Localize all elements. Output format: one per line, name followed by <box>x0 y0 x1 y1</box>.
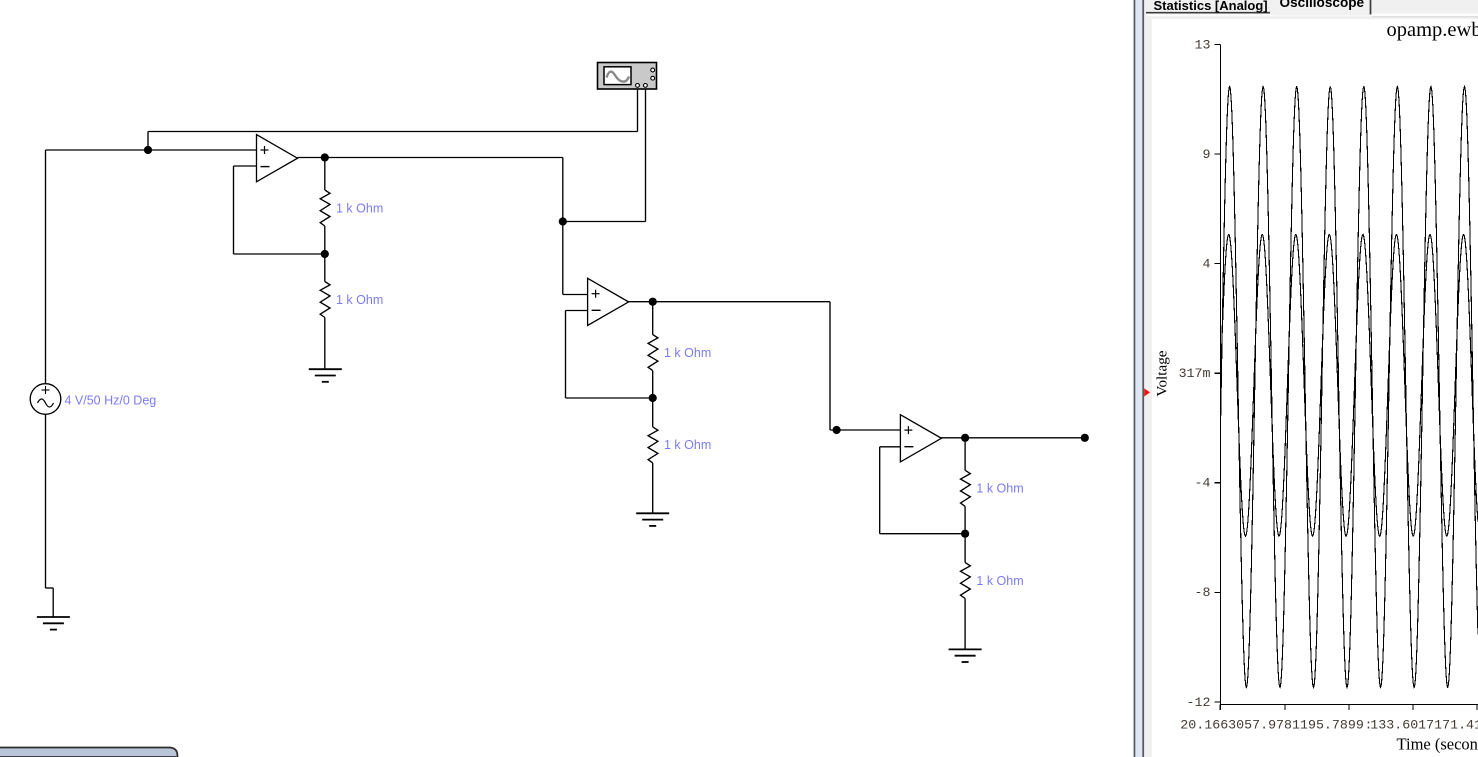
y axis <box>1214 44 1478 710</box>
node U3 input <box>833 426 841 434</box>
ground at source <box>37 616 70 618</box>
node U3 divider mid <box>961 530 969 538</box>
resistor R2 1 k Ohm <box>320 282 330 318</box>
tab Statistics [Analog] <box>1146 0 1270 12</box>
wire top horizontal to scope channel A <box>148 131 638 133</box>
wire source bottom to ground <box>45 414 47 588</box>
x axis <box>1221 704 1478 706</box>
wire scope B to node <box>563 221 646 223</box>
svg-text:Oscilloscope: Oscilloscope <box>1280 0 1365 10</box>
node U2 divider mid <box>649 394 657 402</box>
svg-text:4: 4 <box>1203 257 1211 272</box>
svg-text:9: 9 <box>1203 147 1211 162</box>
wire U3 feedback loop <box>880 446 901 448</box>
tab Oscilloscope (selected) <box>1273 0 1371 16</box>
svg-text:-4: -4 <box>1195 476 1211 491</box>
svg-text:Voltage: Voltage <box>1153 350 1170 396</box>
node scope B tap <box>559 217 567 225</box>
resistor R4 1 k Ohm <box>648 427 658 463</box>
waveform trace channel A (small) <box>1221 234 1478 536</box>
ground at U1 divider <box>309 368 342 370</box>
resistor R1 1 k Ohm <box>320 190 330 226</box>
wire U1 output vertical to U2 <box>562 158 564 295</box>
panel splitter bar <box>1134 0 1136 757</box>
wire U1 feedback loop <box>234 165 257 167</box>
resistor R5 1 k Ohm <box>961 470 971 506</box>
svg-text:4 V/50 Hz/0 Deg: 4 V/50 Hz/0 Deg <box>65 393 157 407</box>
node U1 divider mid <box>321 250 329 258</box>
waveform trace channel B (large) <box>1221 87 1478 688</box>
svg-text:317m: 317m <box>1179 366 1211 381</box>
svg-text:Statistics [Analog]: Statistics [Analog] <box>1154 0 1268 13</box>
wire source to opamp U1 noninverting input <box>46 149 257 151</box>
wire U2 divider chain <box>652 302 654 335</box>
wire into U2 noninverting input <box>563 294 588 296</box>
red cursor marker <box>1144 388 1150 396</box>
wire node to scope branch riser <box>147 132 149 151</box>
node U2 output <box>649 298 657 306</box>
svg-text:20.1663057.9781195.7899: 20.1663057.9781195.7899 <box>1180 717 1364 732</box>
svg-text:Time (seconds): Time (seconds) <box>1397 735 1478 754</box>
wire U2 output to U3 <box>628 301 830 303</box>
resistor R6 1 k Ohm <box>961 563 971 599</box>
AC voltage source V1 <box>30 384 61 415</box>
wire U2 feedback loop <box>566 310 588 312</box>
svg-text:1 k Ohm: 1 k Ohm <box>664 438 711 452</box>
svg-text:133.6017171.41: 133.6017171.41 <box>1370 717 1478 732</box>
wire U1 divider chain <box>324 158 326 191</box>
svg-text:1 k Ohm: 1 k Ohm <box>976 482 1023 496</box>
svg-text:1 k Ohm: 1 k Ohm <box>664 346 711 360</box>
svg-text:opamp.ewb: opamp.ewb <box>1387 19 1478 41</box>
svg-text:1 k Ohm: 1 k Ohm <box>336 201 383 215</box>
svg-text:-12: -12 <box>1187 695 1211 710</box>
op-amp U3 <box>900 415 941 462</box>
wire source top vertical <box>45 150 47 384</box>
svg-text:-8: -8 <box>1195 585 1211 600</box>
node at source/U1 input <box>144 146 152 154</box>
svg-text:13: 13 <box>1195 37 1211 52</box>
node U1 output <box>321 153 329 161</box>
bottom-left partial window/tooltip <box>0 748 178 757</box>
oscilloscope XSC1 <box>598 63 657 90</box>
analysis graphs panel background <box>1144 0 1478 757</box>
wire U3 output <box>940 437 1084 439</box>
wire U1 output horizontal <box>298 157 563 159</box>
svg-text:1 k Ohm: 1 k Ohm <box>336 293 383 307</box>
node U3 output <box>961 434 969 442</box>
op-amp U1 <box>257 135 298 182</box>
wire scope channel B drop <box>645 90 647 222</box>
ground at U2 divider <box>636 512 669 514</box>
op-amp U2 <box>588 278 629 325</box>
wire scope channel A drop <box>637 90 639 132</box>
wire U3 divider chain <box>964 438 966 471</box>
resistor R3 1 k Ohm <box>648 335 658 371</box>
ground at U3 divider <box>949 648 982 650</box>
node output terminal <box>1081 434 1089 442</box>
svg-text:1 k Ohm: 1 k Ohm <box>976 574 1023 588</box>
